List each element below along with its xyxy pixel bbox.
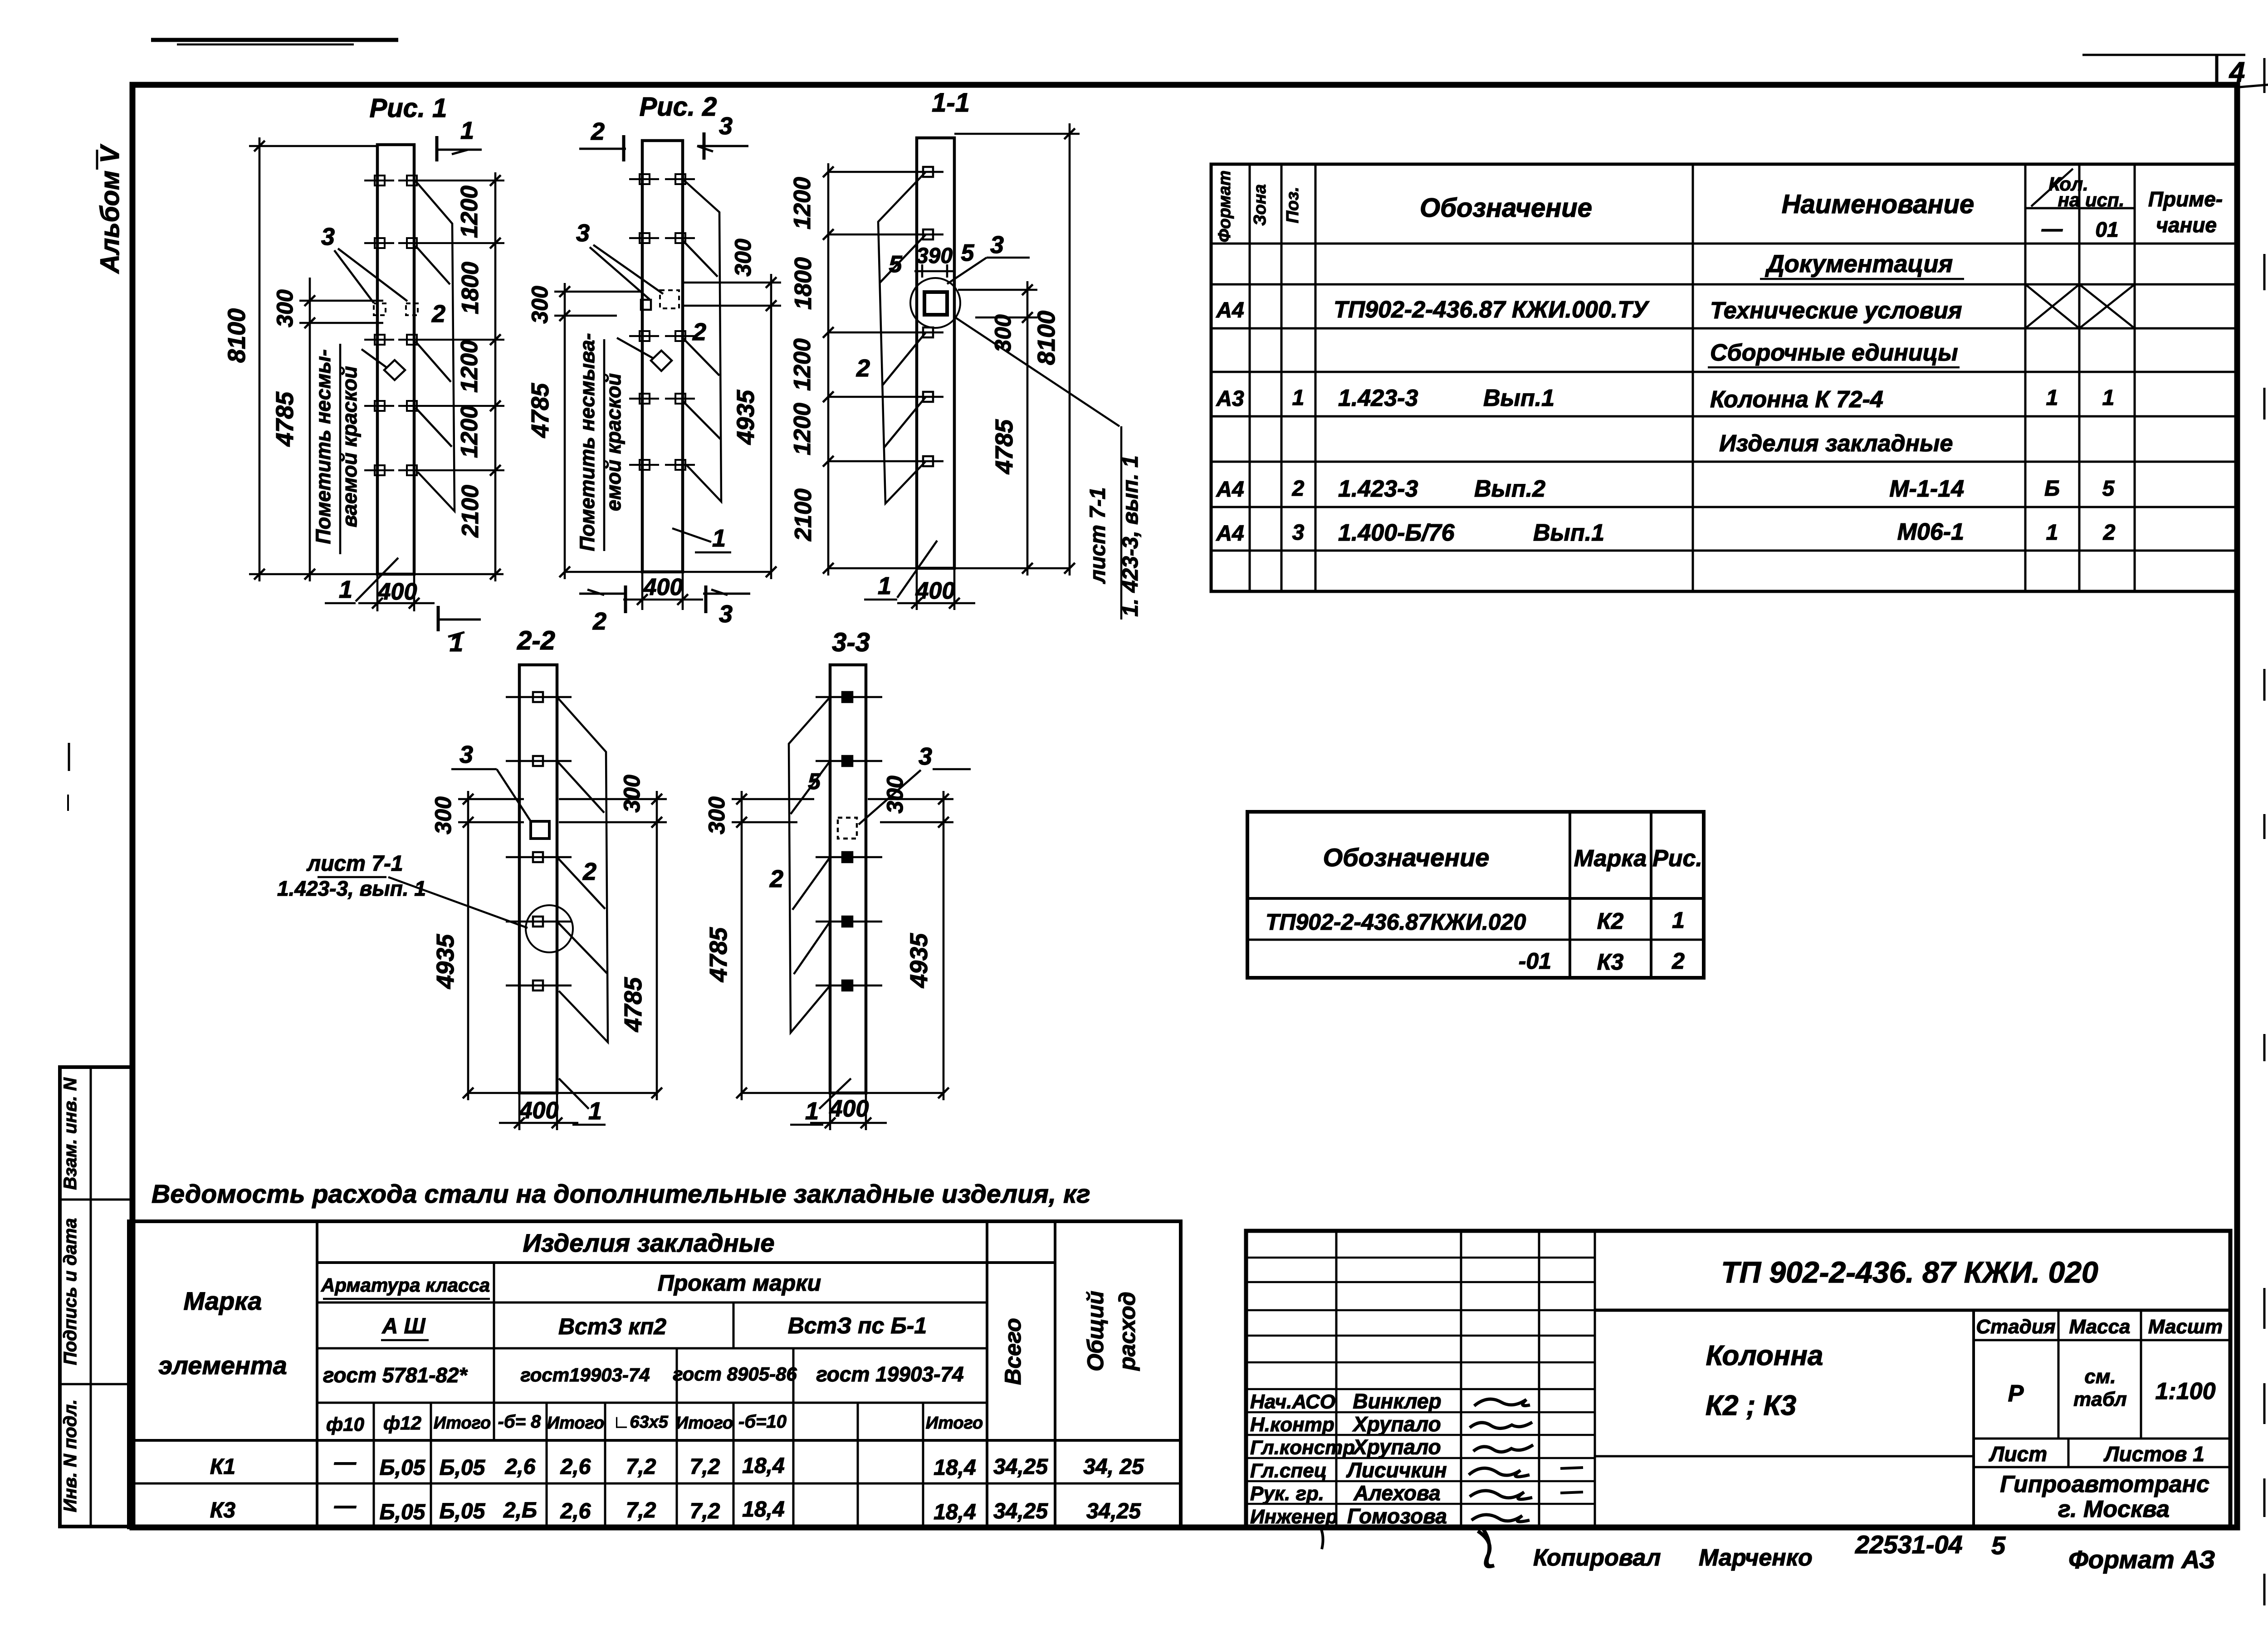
svg-text:емой краской: емой краской xyxy=(602,373,625,511)
svg-text:1: 1 xyxy=(712,525,726,552)
svg-text:Итого: Итого xyxy=(926,1414,983,1433)
svg-text:М06-1: М06-1 xyxy=(1897,519,1964,545)
2-2 right dim 300/4785 xyxy=(656,791,658,1100)
svg-text:4935: 4935 xyxy=(732,390,759,445)
svg-text:Р: Р xyxy=(2008,1380,2024,1407)
svg-text:4785: 4785 xyxy=(705,927,732,982)
Ris.1 bottom width dim 400 xyxy=(376,574,379,611)
svg-text:-б= 8: -б= 8 xyxy=(498,1412,542,1432)
svg-text:Гипроавтотранс: Гипроавтотранс xyxy=(2000,1471,2209,1497)
Ris.2 bottom width 400 xyxy=(641,572,644,610)
svg-text:Хрупало: Хрупало xyxy=(1352,1435,1441,1459)
svg-text:Марка: Марка xyxy=(184,1287,262,1315)
svg-text:4935: 4935 xyxy=(905,933,933,988)
svg-text:2: 2 xyxy=(692,318,706,346)
svg-text:2-2: 2-2 xyxy=(517,626,555,655)
svg-text:2,6: 2,6 xyxy=(560,1455,591,1479)
svg-text:7,2: 7,2 xyxy=(626,1498,656,1522)
svg-text:Колонна: Колонна xyxy=(1706,1340,1823,1371)
svg-text:1800: 1800 xyxy=(457,262,484,314)
svg-text:Копировал: Копировал xyxy=(1533,1545,1661,1571)
svg-text:Итого: Итого xyxy=(676,1414,733,1433)
svg-text:300: 300 xyxy=(619,775,645,813)
svg-text:1: 1 xyxy=(805,1097,819,1125)
right paper edge dashes xyxy=(2263,58,2266,93)
svg-text:Ведомость расхода стали на: Ведомость расхода стали на дополнительны… xyxy=(152,1180,1090,1209)
svg-text:3: 3 xyxy=(1292,521,1305,545)
svg-text:Всего: Всего xyxy=(1000,1318,1026,1385)
svg-text:Альбом V: Альбом V xyxy=(95,144,125,274)
svg-text:400: 400 xyxy=(519,1097,559,1124)
1-1 left dim chain 1200/1800/1200/1200/2100 xyxy=(827,163,830,576)
svg-text:3: 3 xyxy=(321,223,335,250)
Ris.1 dim chain 8100 (left outer) xyxy=(259,137,261,581)
1-1 right dim 300/4785 xyxy=(1026,281,1029,576)
svg-text:Прокат марки: Прокат марки xyxy=(658,1270,821,1296)
1-1 leader to sheet note xyxy=(954,317,1119,426)
svg-text:300: 300 xyxy=(430,796,456,834)
svg-text:2100: 2100 xyxy=(790,488,816,541)
svg-text:табл: табл xyxy=(2073,1388,2127,1410)
Ris.1 section mark 1 bottom xyxy=(437,606,440,631)
Ris.1 section mark 1 top xyxy=(435,136,439,161)
svg-text:лист 7-1: лист 7-1 xyxy=(306,852,403,876)
Ris.1 marking plate parallelogram item 2 xyxy=(415,181,455,511)
svg-text:1. 423-3, вып. 1: 1. 423-3, вып. 1 xyxy=(1119,455,1143,616)
svg-text:Алехова: Алехова xyxy=(1353,1481,1441,1505)
3-3 parallelogram item 2 xyxy=(789,697,830,1033)
svg-text:4785: 4785 xyxy=(527,383,554,438)
1-1 embed markers xyxy=(923,167,933,177)
svg-text:Рис. 1: Рис. 1 xyxy=(370,93,447,123)
svg-text:М-1-14: М-1-14 xyxy=(1889,476,1964,502)
svg-text:Инв. N подл.: Инв. N подл. xyxy=(60,1400,80,1512)
svg-text:гост 5781-82*: гост 5781-82* xyxy=(323,1363,468,1387)
svg-text:ТП902-2-436.87 КЖИ.000.ТУ: ТП902-2-436.87 КЖИ.000.ТУ xyxy=(1334,297,1650,323)
svg-text:Гл.констр: Гл.констр xyxy=(1250,1437,1355,1459)
svg-text:Общий: Общий xyxy=(1083,1291,1108,1371)
svg-text:2: 2 xyxy=(856,355,870,382)
sheet number box "4" top right xyxy=(2082,54,2245,56)
3-3 column outline xyxy=(830,665,866,1093)
svg-text:400: 400 xyxy=(829,1096,869,1122)
2-2 embed markers xyxy=(506,696,572,698)
svg-text:300: 300 xyxy=(272,289,298,327)
svg-text:1: 1 xyxy=(2046,521,2058,545)
svg-text:на исп.: на исп. xyxy=(2058,189,2125,210)
Ris.2 right dim 300/4935 xyxy=(770,274,772,579)
Ris.1 column K2 outline xyxy=(377,145,414,574)
svg-text:2,6: 2,6 xyxy=(505,1455,536,1479)
svg-text:Арматура класса: Арматура класса xyxy=(321,1274,490,1296)
1-1 dim 390 xyxy=(921,264,924,278)
svg-text:К2: К2 xyxy=(1597,908,1624,934)
svg-text:Лист: Лист xyxy=(1989,1442,2047,1466)
svg-text:ВстЗ пс Б-1: ВстЗ пс Б-1 xyxy=(788,1313,927,1338)
3-3 hidden plate dashed item 3 xyxy=(838,818,857,839)
svg-text:расход: расход xyxy=(1114,1292,1140,1371)
svg-text:1200: 1200 xyxy=(456,340,483,393)
svg-text:2: 2 xyxy=(591,118,605,145)
svg-text:Поз.: Поз. xyxy=(1283,187,1302,224)
svg-text:ф12: ф12 xyxy=(383,1412,421,1434)
svg-text:гост19903-74: гост19903-74 xyxy=(520,1364,650,1385)
svg-text:-б=10: -б=10 xyxy=(738,1412,787,1432)
svg-text:-01: -01 xyxy=(1519,948,1551,974)
svg-text:Рис. 2: Рис. 2 xyxy=(640,92,717,122)
Ris.1 hidden plates (dashed) xyxy=(374,303,386,315)
svg-text:2: 2 xyxy=(582,858,596,885)
left margin attribute strip xyxy=(60,1067,132,1527)
svg-text:—: — xyxy=(334,1494,357,1518)
svg-text:Вып.2: Вып.2 xyxy=(1474,476,1545,502)
svg-text:22531-04: 22531-04 xyxy=(1855,1530,1963,1559)
svg-text:18,4: 18,4 xyxy=(742,1497,784,1522)
svg-text:Б,05: Б,05 xyxy=(380,1500,426,1524)
svg-text:5: 5 xyxy=(808,769,821,794)
scan artifact line top-left xyxy=(151,38,398,42)
svg-text:Вып.1: Вып.1 xyxy=(1533,520,1604,546)
svg-text:5: 5 xyxy=(889,251,903,278)
svg-text:г. Москва: г. Москва xyxy=(2058,1496,2170,1522)
svg-text:3: 3 xyxy=(719,112,733,140)
mark table xyxy=(1247,812,1704,978)
svg-text:Масса: Масса xyxy=(2069,1316,2130,1338)
svg-text:1: 1 xyxy=(1672,907,1685,933)
Ris.1 dim chain 300 / 4785 xyxy=(309,278,311,581)
svg-text:3: 3 xyxy=(719,600,733,628)
svg-text:Вып.1: Вып.1 xyxy=(1483,385,1554,411)
svg-text:2100: 2100 xyxy=(457,485,484,538)
svg-text:1.400-Б/76: 1.400-Б/76 xyxy=(1338,520,1455,546)
svg-text:Инженер: Инженер xyxy=(1250,1506,1338,1528)
svg-text:Б,05: Б,05 xyxy=(440,1499,486,1523)
svg-text:400: 400 xyxy=(643,574,683,600)
svg-text:7,2: 7,2 xyxy=(690,1455,720,1479)
svg-text:Лисичкин: Лисичкин xyxy=(1346,1458,1447,1482)
svg-text:4785: 4785 xyxy=(620,977,647,1032)
svg-text:1: 1 xyxy=(460,117,474,144)
3-3 left dim 300/4785 xyxy=(741,791,743,1100)
svg-text:А4: А4 xyxy=(1216,522,1244,546)
svg-text:Подпись и дата: Подпись и дата xyxy=(60,1218,80,1365)
svg-text:А Ш: А Ш xyxy=(382,1314,426,1338)
svg-text:400: 400 xyxy=(377,579,417,605)
Ris.1 dim chain right 1200/1800/1200/1200/2100 xyxy=(494,172,497,581)
specification table xyxy=(1211,164,2237,591)
2-2 left dim 300/4935 xyxy=(467,791,469,1100)
svg-text:ВстЗ кп2: ВстЗ кп2 xyxy=(558,1314,666,1339)
2-2 parallelogram item 2 xyxy=(557,697,608,1042)
svg-text:4: 4 xyxy=(2229,57,2245,88)
svg-text:Винклер: Винклер xyxy=(1353,1390,1441,1413)
svg-text:4785: 4785 xyxy=(271,391,298,447)
svg-text:Б: Б xyxy=(2044,477,2060,501)
svg-text:18,4: 18,4 xyxy=(742,1454,784,1478)
svg-text:1800: 1800 xyxy=(790,257,816,310)
1-1 detail circle with plate M06-1 xyxy=(910,278,960,328)
svg-text:лист 7-1: лист 7-1 xyxy=(1086,487,1110,584)
svg-text:Рис.: Рис. xyxy=(1652,845,1702,872)
3-3 bottom width 400 xyxy=(829,1093,831,1130)
svg-text:А3: А3 xyxy=(1216,387,1244,411)
svg-text:2,Б: 2,Б xyxy=(503,1498,537,1522)
1-1 right dim 8100 xyxy=(1069,123,1071,576)
svg-text:300: 300 xyxy=(527,286,552,324)
svg-text:7,2: 7,2 xyxy=(626,1455,656,1479)
Ris.1 paint diamond mark xyxy=(384,360,405,380)
Ris.2 hidden plate dashed xyxy=(660,290,679,308)
svg-text:2,6: 2,6 xyxy=(560,1499,591,1523)
svg-text:18,4: 18,4 xyxy=(934,1500,976,1524)
svg-text:—: — xyxy=(2041,217,2063,240)
svg-text:Гл.спец: Гл.спец xyxy=(1250,1460,1327,1482)
svg-text:А4: А4 xyxy=(1216,478,1244,502)
svg-text:1200: 1200 xyxy=(789,338,816,391)
svg-text:1200: 1200 xyxy=(456,185,483,238)
svg-text:390: 390 xyxy=(916,244,953,268)
svg-text:чание: чание xyxy=(2156,213,2217,237)
svg-text:1.423-3: 1.423-3 xyxy=(1338,385,1418,411)
1-1 column outline xyxy=(917,138,954,568)
left paper edge marks xyxy=(68,743,70,771)
svg-text:ваемой краской: ваемой краской xyxy=(338,366,361,527)
svg-text:Пометить несмыва-: Пометить несмыва- xyxy=(576,333,599,551)
steel consumption table xyxy=(129,1221,1181,1527)
svg-text:ТП902-2-436.87КЖИ.020: ТП902-2-436.87КЖИ.020 xyxy=(1266,909,1526,935)
svg-text:2: 2 xyxy=(592,608,606,635)
svg-text:гост 19903-74: гост 19903-74 xyxy=(816,1362,963,1386)
svg-text:8100: 8100 xyxy=(1033,311,1060,365)
2-2 detail circle xyxy=(526,905,573,952)
svg-text:1200: 1200 xyxy=(789,177,816,229)
svg-text:3: 3 xyxy=(990,231,1004,259)
svg-text:элемента: элемента xyxy=(158,1351,287,1380)
svg-text:2: 2 xyxy=(1292,477,1305,501)
svg-text:Итого: Итого xyxy=(434,1414,491,1433)
svg-text:гост 8905-86: гост 8905-86 xyxy=(673,1363,797,1385)
svg-text:2: 2 xyxy=(2103,521,2116,545)
svg-text:300: 300 xyxy=(990,314,1016,352)
svg-text:1.423-3: 1.423-3 xyxy=(1338,476,1418,502)
svg-text:А4: А4 xyxy=(1216,298,1244,322)
svg-text:см.: см. xyxy=(2084,1366,2116,1388)
title block xyxy=(1246,1231,2230,1527)
svg-text:Марка: Марка xyxy=(1574,845,1647,872)
doc number cell xyxy=(1595,1309,2230,1312)
svg-text:01: 01 xyxy=(2095,218,2118,241)
3-3 embed markers xyxy=(816,696,882,698)
svg-text:Сборочные единицы: Сборочные единицы xyxy=(1710,340,1958,366)
svg-text:Пометить несмы-: Пометить несмы- xyxy=(312,349,335,544)
svg-text:1: 1 xyxy=(2102,386,2115,410)
svg-text:34, 25: 34, 25 xyxy=(1083,1455,1144,1479)
svg-text:300: 300 xyxy=(882,776,908,814)
svg-text:Документация: Документация xyxy=(1765,250,1953,278)
svg-text:Наименование: Наименование xyxy=(1782,190,1974,219)
svg-text:Б,05: Б,05 xyxy=(440,1456,486,1480)
2-2 bottom width 400 xyxy=(518,1093,521,1130)
Ris.2 left dim 300/4785 xyxy=(564,283,566,579)
svg-text:18,4: 18,4 xyxy=(934,1456,976,1480)
svg-text:34,25: 34,25 xyxy=(1086,1499,1141,1523)
svg-text:3-3: 3-3 xyxy=(832,628,870,657)
svg-text:3: 3 xyxy=(576,219,590,247)
svg-text:Марченко: Марченко xyxy=(1699,1545,1813,1571)
Ris.1 embed plate markers xyxy=(375,176,385,185)
svg-text:Колонна К 72-4: Колонна К 72-4 xyxy=(1710,386,1883,413)
svg-text:1: 1 xyxy=(2046,386,2058,410)
svg-text:Изделия закладные: Изделия закладные xyxy=(523,1229,774,1257)
svg-text:300: 300 xyxy=(730,239,756,277)
svg-text:Формат: Формат xyxy=(1215,171,1234,243)
column name cell xyxy=(1595,1455,1974,1458)
svg-text:7,2: 7,2 xyxy=(690,1499,720,1523)
2-2 column outline xyxy=(519,665,557,1093)
svg-text:Б,05: Б,05 xyxy=(380,1456,426,1480)
svg-text:300: 300 xyxy=(704,796,729,834)
1-1 parallelogram item 2 xyxy=(878,172,926,503)
svg-text:Приме-: Приме- xyxy=(2148,187,2223,211)
Ris.2 embed plate markers xyxy=(629,178,659,180)
svg-text:4785: 4785 xyxy=(991,419,1018,474)
svg-text:Итого: Итого xyxy=(547,1414,604,1433)
svg-text:1: 1 xyxy=(1292,386,1305,410)
svg-text:Технические условия: Технические условия xyxy=(1710,298,1962,324)
Ris.2 column K3 outline xyxy=(642,141,683,572)
svg-text:1-1: 1-1 xyxy=(932,88,970,117)
svg-text:2: 2 xyxy=(769,865,783,893)
svg-text:К3: К3 xyxy=(1597,949,1624,975)
svg-text:Масшт: Масшт xyxy=(2148,1316,2223,1338)
svg-text:Рук. гр.: Рук. гр. xyxy=(1250,1483,1324,1505)
2-2 welded plate item 3 xyxy=(531,821,549,839)
svg-text:ф10: ф10 xyxy=(326,1414,364,1435)
svg-text:К1: К1 xyxy=(210,1455,235,1479)
svg-text:3: 3 xyxy=(919,743,932,770)
svg-text:Изделия закладные: Изделия закладные xyxy=(1719,430,1953,457)
svg-text:Гомозова: Гомозова xyxy=(1347,1504,1447,1528)
svg-text:5: 5 xyxy=(1991,1531,2006,1560)
svg-text:34,25: 34,25 xyxy=(993,1455,1048,1479)
svg-text:Н.контр: Н.контр xyxy=(1250,1414,1334,1436)
svg-text:1200: 1200 xyxy=(456,405,483,458)
svg-text:Стадия: Стадия xyxy=(1976,1316,2055,1338)
svg-text:34,25: 34,25 xyxy=(993,1499,1048,1523)
svg-text:Обозначение: Обозначение xyxy=(1420,193,1592,223)
svg-text:1: 1 xyxy=(339,576,352,603)
stage/mass/scale xyxy=(1972,1310,1975,1527)
svg-text:Взам. инв. N: Взам. инв. N xyxy=(60,1077,80,1190)
svg-text:5: 5 xyxy=(961,240,975,266)
svg-text:5: 5 xyxy=(2102,477,2115,501)
svg-text:Формат АЗ: Формат АЗ xyxy=(2068,1545,2215,1574)
svg-text:Листов 1: Листов 1 xyxy=(2103,1442,2204,1466)
svg-text:—: — xyxy=(334,1450,357,1474)
svg-text:Обозначение: Обозначение xyxy=(1323,843,1490,872)
svg-text:Нач.АСО: Нач.АСО xyxy=(1250,1391,1335,1413)
svg-text:1: 1 xyxy=(588,1097,602,1125)
svg-text:1200: 1200 xyxy=(789,403,816,455)
1-1 bottom width 400 xyxy=(916,568,918,610)
svg-text:8100: 8100 xyxy=(223,308,250,363)
svg-text:1: 1 xyxy=(878,572,891,600)
svg-text:2: 2 xyxy=(1672,948,1685,974)
svg-text:Хрупало: Хрупало xyxy=(1352,1412,1441,1436)
svg-text:К3: К3 xyxy=(210,1498,236,1522)
svg-text:ТП 902-2-436. 87 КЖИ. 020: ТП 902-2-436. 87 КЖИ. 020 xyxy=(1721,1255,2098,1289)
Ris.2 parallelogram item 2 xyxy=(683,179,721,502)
svg-text:∟63x5: ∟63x5 xyxy=(613,1413,669,1432)
3-3 right dim 300/4935 xyxy=(943,791,945,1100)
svg-text:1.423-3, вып. 1: 1.423-3, вып. 1 xyxy=(277,877,426,900)
Ris.2 paint diamond xyxy=(651,351,672,371)
svg-text:400: 400 xyxy=(915,578,955,604)
svg-text:1:100: 1:100 xyxy=(2156,1378,2216,1405)
svg-text:3: 3 xyxy=(459,741,473,768)
svg-text:Зона: Зона xyxy=(1251,184,1270,226)
svg-text:К2 ; К3: К2 ; К3 xyxy=(1706,1390,1796,1421)
crossed cells xyxy=(2025,284,2079,328)
svg-text:4935: 4935 xyxy=(432,934,459,989)
svg-text:2: 2 xyxy=(431,300,445,327)
